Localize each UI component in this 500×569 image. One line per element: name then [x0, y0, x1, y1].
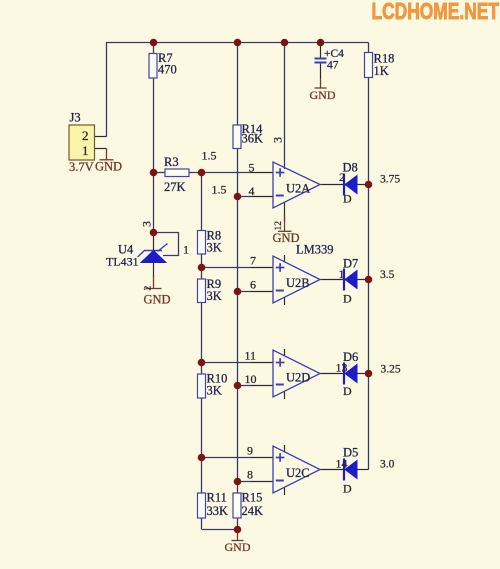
svg-text:GND: GND	[310, 88, 336, 102]
svg-text:36K: 36K	[242, 132, 264, 146]
svg-text:TL431: TL431	[106, 255, 139, 269]
svg-text:GND: GND	[95, 160, 122, 174]
svg-text:3.25: 3.25	[381, 364, 401, 376]
svg-text:D: D	[343, 292, 352, 306]
svg-text:470: 470	[158, 63, 177, 77]
svg-text:1: 1	[82, 143, 89, 158]
svg-text:2: 2	[339, 170, 345, 184]
svg-text:GND: GND	[225, 540, 251, 554]
svg-text:3K: 3K	[207, 384, 222, 398]
svg-text:10: 10	[245, 372, 257, 386]
svg-text:LCDHOME.NET: LCDHOME.NET	[372, 0, 500, 24]
svg-text:D7: D7	[343, 257, 358, 271]
svg-text:U2A: U2A	[286, 182, 310, 196]
svg-text:1.5: 1.5	[212, 183, 227, 197]
svg-text:R11: R11	[207, 491, 227, 505]
svg-text:1.5: 1.5	[202, 149, 217, 163]
svg-text:11: 11	[245, 349, 257, 363]
svg-text:2: 2	[144, 286, 154, 291]
svg-text:3.7V: 3.7V	[69, 160, 94, 174]
svg-text:D: D	[343, 192, 352, 206]
svg-text:13: 13	[336, 361, 348, 375]
svg-text:D: D	[343, 482, 352, 496]
svg-text:3: 3	[271, 137, 285, 143]
svg-text:J3: J3	[70, 111, 81, 125]
svg-text:1: 1	[183, 243, 189, 257]
svg-text:5: 5	[249, 161, 255, 175]
svg-text:47: 47	[327, 60, 339, 72]
svg-text:D: D	[343, 384, 352, 398]
svg-text:4: 4	[249, 184, 255, 198]
svg-text:7: 7	[250, 254, 256, 268]
svg-text:12: 12	[274, 221, 284, 231]
svg-text:9: 9	[247, 444, 253, 458]
svg-text:U2B: U2B	[286, 276, 310, 290]
svg-text:GND: GND	[273, 231, 300, 245]
svg-text:14: 14	[336, 457, 348, 471]
svg-text:GND: GND	[144, 293, 171, 307]
svg-text:3K: 3K	[207, 241, 222, 255]
svg-text:3.75: 3.75	[380, 174, 400, 186]
svg-text:8: 8	[247, 468, 253, 482]
svg-text:U2C: U2C	[286, 466, 310, 480]
svg-text:R3: R3	[164, 155, 179, 169]
svg-text:R15: R15	[242, 491, 263, 505]
svg-text:U2D: U2D	[286, 371, 310, 385]
svg-text:2: 2	[82, 128, 89, 143]
svg-text:1: 1	[339, 267, 345, 281]
svg-text:27K: 27K	[164, 180, 186, 194]
svg-text:6: 6	[250, 278, 256, 292]
svg-text:3K: 3K	[207, 289, 222, 303]
svg-text:24K: 24K	[242, 504, 264, 518]
svg-text:3: 3	[140, 221, 154, 227]
svg-text:+C4: +C4	[324, 48, 344, 60]
svg-text:3.0: 3.0	[380, 459, 395, 471]
svg-text:LM339: LM339	[296, 243, 334, 257]
svg-text:1K: 1K	[374, 64, 389, 78]
svg-text:3.5: 3.5	[380, 269, 395, 281]
svg-text:33K: 33K	[207, 504, 229, 518]
